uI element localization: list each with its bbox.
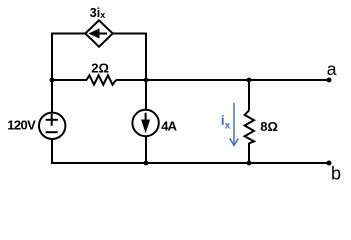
junction node 8ohm-top (247, 78, 252, 83)
wire top loop horizontal (51, 33, 147, 35)
svg-text:b: b (331, 163, 341, 183)
wire middle horizontal left segment (52, 79, 87, 81)
junction node left-middle (50, 78, 55, 83)
svg-text:4A: 4A (161, 118, 177, 133)
junction node 8ohm-bottom (247, 161, 252, 166)
current arrow ix (blue) (230, 103, 239, 146)
current source I1 4A (132, 110, 158, 136)
wire middle vertical (145, 33, 147, 165)
svg-text:120V: 120V (7, 117, 36, 132)
terminal a dot (327, 78, 332, 83)
wire 8ohm branch upper (248, 80, 250, 111)
svg-text:a: a (327, 59, 337, 79)
resistor R2 8ohm zigzag (245, 111, 254, 144)
svg-text:8Ω: 8Ω (260, 119, 278, 134)
voltage source V1 120V (39, 113, 65, 139)
svg-text:2Ω: 2Ω (91, 60, 109, 75)
wire left vertical (51, 33, 53, 165)
wire middle horizontal right segment (116, 79, 329, 81)
wire bottom (51, 162, 329, 164)
dependent current source U1 (3ix) diamond (85, 20, 112, 46)
junction node mid-middle (144, 78, 149, 83)
wire 8ohm branch lower (248, 143, 250, 163)
terminal b dot (327, 161, 332, 166)
junction node mid-bottom (144, 161, 149, 166)
resistor R1 2ohm zigzag (87, 75, 117, 84)
